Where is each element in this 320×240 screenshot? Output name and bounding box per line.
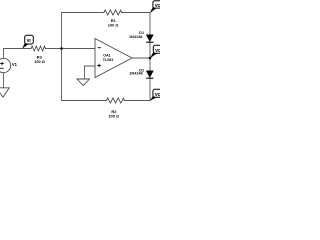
probe VO3 at bottom right [150, 89, 162, 100]
minus input symbol [98, 47, 101, 49]
wire input top from V1 to R3 [4, 49, 32, 59]
wire op-amp output to right rail [132, 57, 150, 59]
resistor R1 [104, 10, 122, 15]
svg-text:100 Ω: 100 Ω [34, 59, 45, 64]
resistor R3 [31, 46, 45, 51]
probe VI at input [22, 35, 33, 48]
junction node at op-amp output [149, 57, 151, 59]
wire D1 cathode down to output node [149, 42, 151, 58]
wire bottom rail left to feedback node [62, 49, 107, 101]
wire R1 right to top-right corner [122, 13, 150, 35]
svg-text:VO: VO [155, 3, 160, 8]
junction node at inverting input [60, 47, 62, 49]
diode D1 [146, 35, 153, 43]
wire feedback left vertical up [62, 13, 104, 49]
ground G1 below V1 [0, 88, 9, 97]
svg-text:TL081: TL081 [103, 58, 114, 62]
wire op-amp plus input to ground [85, 66, 96, 79]
ground G2 at op-amp plus input [77, 79, 90, 86]
wire output node down to D2 [149, 58, 151, 71]
resistor R2 [106, 98, 124, 103]
svg-text:VO: VO [155, 92, 160, 97]
svg-text:VI: VI [27, 38, 31, 43]
wire D2 cathode down to bottom rail [124, 78, 150, 100]
svg-text:1N4148: 1N4148 [129, 35, 142, 39]
voltage source V1 [0, 58, 11, 72]
probe VO2 at op-amp output [150, 45, 162, 58]
plus input symbol [97, 64, 101, 68]
op-amp OA1 [95, 39, 132, 78]
svg-text:V1: V1 [12, 62, 18, 67]
wire R3 right to op-amp minus input [45, 48, 95, 50]
svg-text:100 Ω: 100 Ω [108, 23, 119, 28]
diode D2 [146, 71, 153, 79]
svg-text:VO: VO [155, 48, 160, 53]
probe VO1 at top right [150, 1, 162, 13]
svg-text:1N4148: 1N4148 [129, 72, 142, 76]
wire V1 bottom to ground [3, 73, 5, 88]
svg-text:OA1: OA1 [103, 54, 111, 58]
svg-text:100 Ω: 100 Ω [108, 114, 119, 119]
